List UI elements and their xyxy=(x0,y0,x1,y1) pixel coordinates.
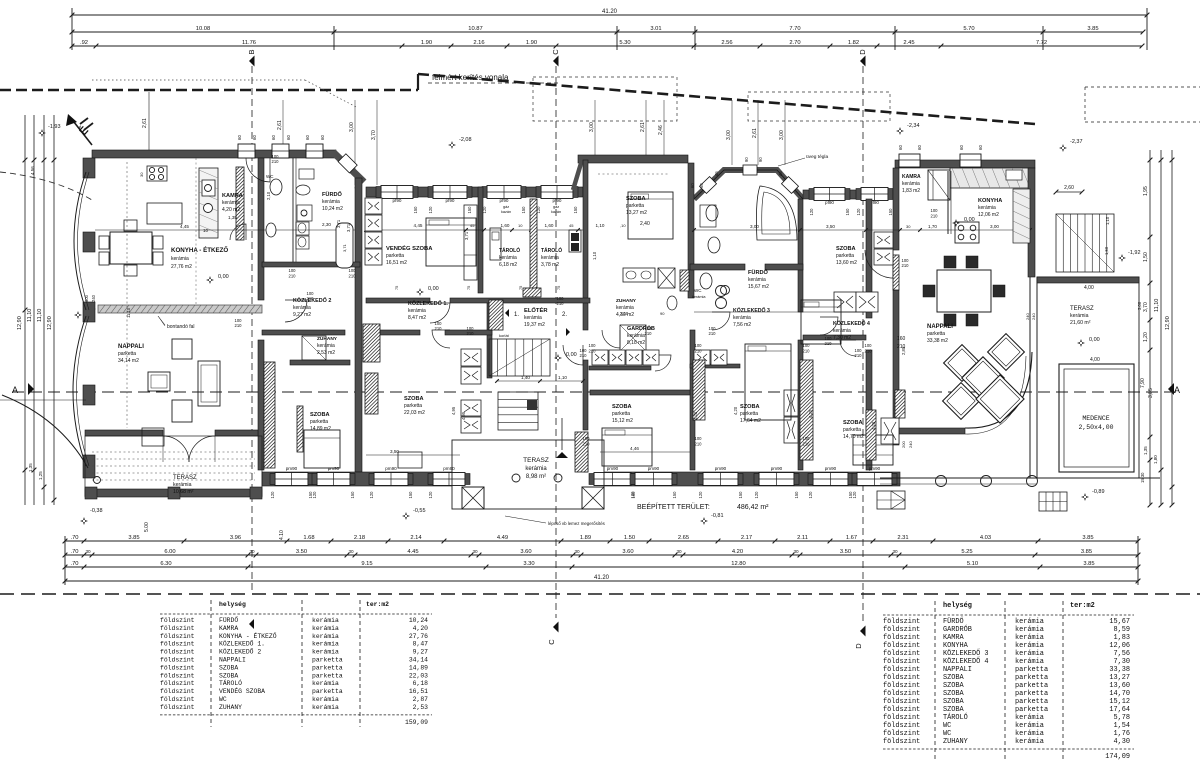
svg-text:parketta: parketta xyxy=(843,427,861,433)
svg-text:földszint: földszint xyxy=(883,714,920,722)
svg-text:10.87: 10.87 xyxy=(468,26,483,32)
svg-text:14,89: 14,89 xyxy=(409,664,428,671)
svg-text:60: 60 xyxy=(252,135,257,140)
svg-text:pf90: pf90 xyxy=(553,198,562,203)
svg-text:TÁROLÓ: TÁROLÓ xyxy=(943,712,968,722)
svg-text:486,42 m²: 486,42 m² xyxy=(737,504,769,511)
svg-text:pm90: pm90 xyxy=(869,466,881,471)
svg-text:2,50x4,00: 2,50x4,00 xyxy=(1078,424,1113,431)
svg-text:120: 120 xyxy=(428,206,433,214)
svg-text:8,18 m2: 8,18 m2 xyxy=(627,340,645,346)
svg-text:D: D xyxy=(854,643,863,649)
svg-text:földszint: földszint xyxy=(883,658,920,666)
svg-text:pm90: pm90 xyxy=(715,466,727,471)
svg-text:4,00: 4,00 xyxy=(1090,357,1100,363)
svg-text:kerámia: kerámia xyxy=(524,315,542,321)
svg-text:1.89: 1.89 xyxy=(580,535,591,541)
svg-text:12,06: 12,06 xyxy=(1109,642,1130,650)
svg-text:210: 210 xyxy=(307,296,315,301)
svg-text:3,00: 3,00 xyxy=(750,224,759,229)
svg-text:240: 240 xyxy=(908,441,913,448)
svg-text:150: 150 xyxy=(573,206,578,214)
svg-text:FÜRDŐ: FÜRDŐ xyxy=(748,269,769,276)
svg-text:gáz: gáz xyxy=(553,205,559,209)
svg-text:1,80: 1,80 xyxy=(1153,455,1158,464)
svg-text:2.18: 2.18 xyxy=(354,535,365,541)
svg-text:7,56 m2: 7,56 m2 xyxy=(733,322,751,328)
svg-text:kerámia: kerámia xyxy=(173,482,192,488)
svg-text:210: 210 xyxy=(349,274,357,279)
svg-text:GARDRÓB: GARDRÓB xyxy=(943,624,972,634)
svg-text:-1,93: -1,93 xyxy=(48,124,61,130)
svg-text:210: 210 xyxy=(695,442,703,447)
svg-text:gáz: gáz xyxy=(503,205,509,209)
svg-text:SZOBA: SZOBA xyxy=(740,404,760,410)
svg-text:60: 60 xyxy=(271,135,276,140)
svg-text:parketta: parketta xyxy=(404,403,422,409)
svg-text:3.60: 3.60 xyxy=(622,549,633,555)
svg-text:90: 90 xyxy=(744,157,749,162)
svg-text:földszint: földszint xyxy=(160,649,195,656)
svg-text:150: 150 xyxy=(413,206,418,214)
svg-text:2,87: 2,87 xyxy=(413,696,429,703)
svg-text:D: D xyxy=(858,49,867,55)
svg-text:33,38 m2: 33,38 m2 xyxy=(927,338,948,344)
svg-text:15,12: 15,12 xyxy=(1109,698,1130,706)
svg-text:VENDÉG SZOBA: VENDÉG SZOBA xyxy=(219,687,265,695)
svg-text:17,64: 17,64 xyxy=(1109,706,1130,714)
svg-text:parketta: parketta xyxy=(740,411,758,417)
svg-text:NAPPALI: NAPPALI xyxy=(943,666,972,674)
svg-text:10,24 m2: 10,24 m2 xyxy=(322,206,343,212)
svg-text:41.20: 41.20 xyxy=(594,575,610,581)
svg-text:15,30: 15,30 xyxy=(1140,472,1145,483)
svg-text:2.56: 2.56 xyxy=(721,40,732,46)
svg-text:210: 210 xyxy=(709,331,717,336)
svg-text:1,10: 1,10 xyxy=(592,251,597,260)
svg-text:SZOBA: SZOBA xyxy=(943,690,965,698)
svg-text:27,76: 27,76 xyxy=(409,633,428,640)
svg-text:3.85: 3.85 xyxy=(1081,549,1092,555)
svg-text:4,00: 4,00 xyxy=(1084,285,1094,291)
svg-text:földszint: földszint xyxy=(883,634,920,642)
svg-text:3,78 m2: 3,78 m2 xyxy=(541,262,559,268)
svg-text:kazán: kazán xyxy=(501,210,511,214)
svg-text:9,27 m2: 9,27 m2 xyxy=(293,312,311,318)
svg-text:11,10: 11,10 xyxy=(37,309,43,322)
svg-text:WC: WC xyxy=(219,696,227,703)
svg-text:kerámia: kerámia xyxy=(627,333,645,339)
svg-text:174,09: 174,09 xyxy=(1105,753,1130,761)
svg-text:-2,37: -2,37 xyxy=(1070,139,1083,145)
svg-text:100: 100 xyxy=(803,343,811,348)
svg-text:ZUHANY: ZUHANY xyxy=(616,298,637,304)
svg-text:210: 210 xyxy=(289,274,297,279)
svg-text:13,60: 13,60 xyxy=(1109,682,1130,690)
svg-text:MEDENCE: MEDENCE xyxy=(1082,415,1109,422)
svg-text:A: A xyxy=(1174,385,1180,395)
svg-text:3.96: 3.96 xyxy=(230,535,241,541)
svg-text:C: C xyxy=(547,639,556,645)
svg-text:11,10: 11,10 xyxy=(1154,299,1160,312)
svg-text:4,20: 4,20 xyxy=(693,411,698,420)
svg-text:2.11: 2.11 xyxy=(797,535,808,541)
svg-text:kerámia: kerámia xyxy=(902,181,920,187)
svg-text:1.90: 1.90 xyxy=(526,40,537,46)
svg-text:13,27: 13,27 xyxy=(1109,674,1130,682)
svg-text:19,37 m2: 19,37 m2 xyxy=(524,322,545,328)
svg-text:2.65: 2.65 xyxy=(678,535,689,541)
svg-text:4,95: 4,95 xyxy=(451,406,456,415)
svg-text:4,95: 4,95 xyxy=(461,411,466,420)
svg-text:KONYHA: KONYHA xyxy=(943,642,969,650)
svg-text:159,09: 159,09 xyxy=(405,719,428,726)
svg-text:KAMRA: KAMRA xyxy=(222,193,243,199)
svg-text:parketta: parketta xyxy=(1015,674,1048,682)
svg-text:100: 100 xyxy=(695,436,703,441)
svg-text:parketta: parketta xyxy=(1015,706,1048,714)
svg-text:6.00: 6.00 xyxy=(164,549,175,555)
svg-text:KÖZLEKEDŐ 4: KÖZLEKEDŐ 4 xyxy=(943,657,989,666)
svg-text:200: 200 xyxy=(901,441,906,448)
svg-text:kerámia: kerámia xyxy=(1015,626,1044,634)
svg-text:parketta: parketta xyxy=(312,664,343,671)
svg-text:SZOBA: SZOBA xyxy=(612,404,632,410)
svg-text:210: 210 xyxy=(580,353,588,358)
svg-text:SZOBA: SZOBA xyxy=(943,706,965,714)
svg-text:17,64 m2: 17,64 m2 xyxy=(740,418,761,424)
svg-text:10,68 m²: 10,68 m² xyxy=(173,489,194,495)
svg-text:helység: helység xyxy=(219,601,246,608)
svg-text:22,03: 22,03 xyxy=(409,672,428,679)
svg-text:160: 160 xyxy=(897,336,906,342)
svg-text:3,00: 3,00 xyxy=(990,224,999,229)
svg-text:kerámia: kerámia xyxy=(978,205,996,211)
svg-text:SZOBA: SZOBA xyxy=(219,672,238,679)
svg-text:KONYHA - ÉTKEZŐ: KONYHA - ÉTKEZŐ xyxy=(171,246,228,254)
svg-text:3.01: 3.01 xyxy=(650,26,661,32)
svg-text:240: 240 xyxy=(1025,313,1030,320)
svg-text:parketta: parketta xyxy=(310,419,328,425)
svg-text:4,20: 4,20 xyxy=(413,625,429,632)
svg-text:-0,81: -0,81 xyxy=(711,513,724,519)
svg-text:1.82: 1.82 xyxy=(848,40,859,46)
svg-text:27,76 m2: 27,76 m2 xyxy=(171,264,192,270)
svg-text:KAMRA: KAMRA xyxy=(219,625,238,632)
svg-text:150: 150 xyxy=(521,206,526,214)
svg-text:14,70: 14,70 xyxy=(1109,690,1130,698)
svg-text:4,45: 4,45 xyxy=(180,224,189,229)
svg-text:földszint: földszint xyxy=(883,690,920,698)
svg-text:210: 210 xyxy=(855,353,863,358)
svg-text:kerámia: kerámia xyxy=(1015,642,1044,650)
svg-text:75: 75 xyxy=(519,286,523,290)
svg-text:100: 100 xyxy=(865,343,873,348)
svg-text:kerámia: kerámia xyxy=(833,328,851,334)
svg-text:3,71: 3,71 xyxy=(464,231,469,240)
svg-text:30: 30 xyxy=(249,549,255,554)
svg-text:150: 150 xyxy=(888,208,893,216)
svg-text:120: 120 xyxy=(428,491,433,499)
svg-text:3,50: 3,50 xyxy=(390,449,399,454)
svg-text:2,61: 2,61 xyxy=(277,120,283,130)
svg-text:7,30: 7,30 xyxy=(1113,658,1130,666)
svg-text:1.90: 1.90 xyxy=(421,40,432,46)
svg-text:30: 30 xyxy=(892,549,898,554)
svg-text:parketta: parketta xyxy=(1015,690,1048,698)
svg-text:11,10: 11,10 xyxy=(126,307,131,318)
svg-text:földszint: földszint xyxy=(883,738,920,746)
svg-text:6,18: 6,18 xyxy=(413,680,429,687)
svg-text:földszint: földszint xyxy=(160,641,195,648)
svg-text:4,20 m2: 4,20 m2 xyxy=(222,207,240,213)
svg-text:4,20: 4,20 xyxy=(871,421,876,430)
svg-text:30: 30 xyxy=(676,549,682,554)
svg-text:12,90: 12,90 xyxy=(1165,316,1171,330)
svg-text:7.70: 7.70 xyxy=(789,26,800,32)
svg-text:TERASZ: TERASZ xyxy=(523,457,549,464)
svg-text:3.50: 3.50 xyxy=(296,549,307,555)
svg-text:120: 120 xyxy=(312,491,317,499)
svg-text:34,14 m2: 34,14 m2 xyxy=(118,358,139,364)
svg-text:60: 60 xyxy=(286,135,291,140)
svg-text:ZUHANY: ZUHANY xyxy=(317,336,338,342)
svg-text:SZOBA: SZOBA xyxy=(943,682,965,690)
svg-text:pf90: pf90 xyxy=(500,198,509,203)
svg-text:KÖZLEKEDŐ 1.: KÖZLEKEDŐ 1. xyxy=(219,640,265,648)
svg-text:240: 240 xyxy=(91,294,96,302)
svg-text:150: 150 xyxy=(845,208,850,216)
svg-text:30: 30 xyxy=(85,549,91,554)
svg-text:földszint: földszint xyxy=(883,722,920,730)
svg-text:1,83 m2: 1,83 m2 xyxy=(902,188,920,194)
svg-text:kerámia: kerámia xyxy=(1015,650,1044,658)
svg-text:4.49: 4.49 xyxy=(497,535,508,541)
svg-text:30: 30 xyxy=(348,549,354,554)
svg-text:210: 210 xyxy=(825,341,833,346)
svg-text:1,10: 1,10 xyxy=(596,223,605,228)
svg-text:210: 210 xyxy=(865,349,873,354)
svg-text:parketta: parketta xyxy=(1015,666,1048,674)
svg-text:kerámia: kerámia xyxy=(312,625,339,632)
svg-text:KÖZLEKEDŐ 4: KÖZLEKEDŐ 4 xyxy=(833,320,870,327)
svg-text:3.85: 3.85 xyxy=(1087,26,1098,32)
svg-text:3.85: 3.85 xyxy=(1082,535,1093,541)
svg-text:KÖZLEKEDŐ 2: KÖZLEKEDŐ 2 xyxy=(219,648,261,656)
svg-text:2,10: 2,10 xyxy=(620,311,629,316)
svg-text:parketta: parketta xyxy=(612,411,630,417)
svg-text:2,46: 2,46 xyxy=(658,125,664,135)
svg-text:kerámia: kerámia xyxy=(312,680,339,687)
svg-text:8,98 m²: 8,98 m² xyxy=(526,474,546,480)
svg-text:150: 150 xyxy=(672,491,677,499)
svg-text:parketta: parketta xyxy=(1015,698,1048,706)
svg-text:1,54: 1,54 xyxy=(1113,722,1130,730)
svg-text:3.60: 3.60 xyxy=(520,549,531,555)
svg-text:-2,34: -2,34 xyxy=(907,123,920,129)
svg-text:210: 210 xyxy=(695,349,703,354)
svg-text:150: 150 xyxy=(350,491,355,499)
svg-text:pf90: pf90 xyxy=(393,198,402,203)
svg-text:45: 45 xyxy=(569,223,574,228)
svg-text:1.67: 1.67 xyxy=(846,535,857,541)
svg-text:-2,08: -2,08 xyxy=(459,137,472,143)
svg-text:4.10: 4.10 xyxy=(279,530,285,540)
svg-text:FÜRDŐ: FÜRDŐ xyxy=(943,617,964,626)
svg-text:NAPPALI: NAPPALI xyxy=(927,324,953,330)
svg-text:kerámia: kerámia xyxy=(322,199,340,205)
svg-text:WC: WC xyxy=(943,730,951,738)
svg-text:210: 210 xyxy=(235,323,243,328)
svg-text:SZOBA: SZOBA xyxy=(626,196,646,202)
svg-text:7,30 m2: 7,30 m2 xyxy=(833,335,851,341)
svg-text:kerámia: kerámia xyxy=(171,256,189,262)
svg-text:földszint: földszint xyxy=(160,688,195,695)
svg-text:210: 210 xyxy=(589,349,597,354)
svg-text:kerámia: kerámia xyxy=(541,255,559,261)
svg-text:KÖZLEKEDŐ 1.: KÖZLEKEDŐ 1. xyxy=(408,300,448,307)
svg-text:30: 30 xyxy=(906,224,911,229)
svg-text:100: 100 xyxy=(931,208,939,213)
svg-text:KAMRA: KAMRA xyxy=(902,174,921,180)
svg-text:33,38: 33,38 xyxy=(1109,666,1130,674)
svg-text:2,60: 2,60 xyxy=(1064,185,1074,191)
svg-text:4,20: 4,20 xyxy=(808,409,813,418)
svg-text:ter:m2: ter:m2 xyxy=(1070,602,1095,610)
svg-text:150: 150 xyxy=(467,206,472,214)
svg-text:bontandó fal: bontandó fal xyxy=(167,324,195,330)
svg-text:földszint: földszint xyxy=(883,650,920,658)
svg-text:120: 120 xyxy=(369,491,374,499)
svg-text:75: 75 xyxy=(557,286,561,290)
svg-text:kerámia: kerámia xyxy=(1015,730,1044,738)
svg-text:2.17: 2.17 xyxy=(741,535,752,541)
svg-text:1,35: 1,35 xyxy=(28,463,33,472)
svg-text:300: 300 xyxy=(84,294,89,302)
svg-text:földszint: földszint xyxy=(883,682,920,690)
svg-text:1,35: 1,35 xyxy=(1143,446,1148,455)
svg-text:210: 210 xyxy=(803,442,811,447)
svg-text:2,10: 2,10 xyxy=(266,191,271,200)
svg-text:kerámia: kerámia xyxy=(312,633,339,640)
svg-text:pm90: pm90 xyxy=(385,466,397,471)
svg-text:3,00: 3,00 xyxy=(779,130,785,140)
svg-text:parketta: parketta xyxy=(927,331,945,337)
svg-text:5.70: 5.70 xyxy=(963,26,974,32)
svg-text:15,12 m2: 15,12 m2 xyxy=(612,418,633,424)
svg-text:120: 120 xyxy=(754,491,759,499)
svg-text:parketta: parketta xyxy=(312,688,343,695)
svg-text:BEÉPÍTETT TERÜLET:: BEÉPÍTETT TERÜLET: xyxy=(637,502,710,511)
svg-text:pm90: pm90 xyxy=(328,466,340,471)
svg-text:11.76: 11.76 xyxy=(242,40,256,46)
svg-text:1,60: 1,60 xyxy=(501,223,510,228)
svg-text:parketta: parketta xyxy=(312,672,343,679)
svg-text:.70: .70 xyxy=(70,535,78,541)
svg-text:kerámia: kerámia xyxy=(312,696,339,703)
svg-text:2.: 2. xyxy=(562,312,567,318)
svg-text:2,80: 2,80 xyxy=(901,346,906,355)
svg-text:földszint: földszint xyxy=(883,706,920,714)
svg-text:TÁROLÓ: TÁROLÓ xyxy=(499,246,520,254)
svg-text:földszint: földszint xyxy=(160,617,195,624)
svg-text:45: 45 xyxy=(778,171,783,176)
svg-text:SZOBA: SZOBA xyxy=(404,396,424,402)
svg-text:földszint: földszint xyxy=(883,698,920,706)
svg-text:KÖZLEKEDŐ 3: KÖZLEKEDŐ 3 xyxy=(943,649,989,658)
svg-text:2.45: 2.45 xyxy=(903,40,914,46)
svg-text:2,30: 2,30 xyxy=(322,222,331,227)
svg-text:5.00: 5.00 xyxy=(144,522,150,532)
svg-text:12,06 m2: 12,06 m2 xyxy=(978,212,999,218)
svg-text:5.25: 5.25 xyxy=(961,549,972,555)
svg-text:-1,92: -1,92 xyxy=(1128,250,1141,256)
svg-text:60: 60 xyxy=(898,145,903,150)
svg-text:4.45: 4.45 xyxy=(407,549,418,555)
svg-text:5.10: 5.10 xyxy=(967,561,978,567)
svg-text:SZOBA: SZOBA xyxy=(836,246,856,252)
svg-text:4.20: 4.20 xyxy=(732,549,743,555)
svg-text:SZOBA: SZOBA xyxy=(843,420,863,426)
svg-text:SZOBA: SZOBA xyxy=(310,412,330,418)
svg-text:30: 30 xyxy=(139,172,144,177)
svg-text:KONYHA: KONYHA xyxy=(978,198,1002,204)
svg-text:1,83: 1,83 xyxy=(1113,634,1130,642)
svg-text:60: 60 xyxy=(978,145,983,150)
svg-text:kerámia: kerámia xyxy=(499,255,517,261)
svg-text:FÜRDŐ: FÜRDŐ xyxy=(219,616,238,624)
svg-text:4,20: 4,20 xyxy=(733,406,738,415)
svg-text:kerámia: kerámia xyxy=(312,649,339,656)
svg-text:1,10: 1,10 xyxy=(558,375,567,380)
svg-text:3,50: 3,50 xyxy=(826,224,835,229)
svg-text:120: 120 xyxy=(856,208,861,216)
svg-text:TÁROLÓ: TÁROLÓ xyxy=(541,246,562,254)
svg-text:4,45: 4,45 xyxy=(414,223,423,228)
svg-text:pf90: pf90 xyxy=(825,200,834,205)
svg-text:210: 210 xyxy=(557,301,565,306)
svg-text:90: 90 xyxy=(758,157,763,162)
svg-text:6.30: 6.30 xyxy=(160,561,171,567)
svg-text:3,70: 3,70 xyxy=(371,130,377,140)
svg-text:3,70: 3,70 xyxy=(1143,302,1149,312)
svg-text:2.31: 2.31 xyxy=(897,535,908,541)
svg-text:,10: ,10 xyxy=(620,223,626,228)
svg-text:7.72: 7.72 xyxy=(1036,40,1047,46)
svg-text:1,70: 1,70 xyxy=(928,224,937,229)
svg-text:kerámia: kerámia xyxy=(692,295,706,299)
svg-text:30: 30 xyxy=(472,549,478,554)
svg-text:60: 60 xyxy=(690,183,695,188)
svg-text:210: 210 xyxy=(902,263,910,268)
svg-text:2,40: 2,40 xyxy=(640,221,650,227)
svg-text:60: 60 xyxy=(917,145,922,150)
svg-text:4,30: 4,30 xyxy=(1113,738,1130,746)
svg-text:1.50: 1.50 xyxy=(624,535,635,541)
svg-text:210: 210 xyxy=(931,214,939,219)
svg-text:ter:m2: ter:m2 xyxy=(366,601,389,608)
svg-text:45: 45 xyxy=(470,223,475,228)
svg-text:3,71: 3,71 xyxy=(342,243,347,252)
svg-text:120: 120 xyxy=(852,491,857,499)
svg-text:3,00: 3,00 xyxy=(349,122,355,132)
svg-text:kazán: kazán xyxy=(551,210,561,214)
svg-text:4,56: 4,56 xyxy=(30,166,35,175)
svg-text:13,60 m2: 13,60 m2 xyxy=(836,260,857,266)
svg-text:B: B xyxy=(247,49,256,54)
svg-text:12,90: 12,90 xyxy=(47,316,53,330)
svg-text:16,51: 16,51 xyxy=(409,688,428,695)
